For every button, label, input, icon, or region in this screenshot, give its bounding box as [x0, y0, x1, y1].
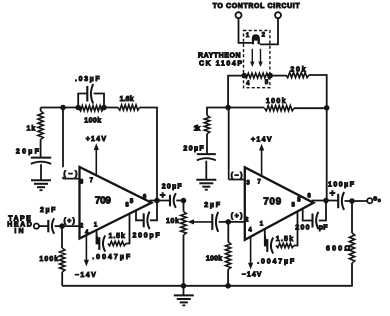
- potentiometer 10k: [181, 201, 187, 286]
- svg-text:(+): (+): [64, 218, 75, 225]
- wire pin 5 stub to 200pF stage 2: [303, 208, 313, 220]
- pin 8 number stage 1: [125, 202, 129, 208]
- label 20uF output: [162, 183, 183, 190]
- wire feedback bus left segment: [41, 107, 79, 109]
- label RAYTHEON: [198, 53, 241, 60]
- resistor 1k stage 1: [38, 111, 43, 140]
- svg-text:−14V: −14V: [242, 272, 262, 279]
- wire 1.6k to stage 1 output node: [140, 108, 157, 201]
- wire right terminal to lamp pin 2: [260, 18, 278, 44]
- svg-text:20µF: 20µF: [16, 148, 40, 155]
- svg-text:1.5k: 1.5k: [276, 236, 293, 243]
- wire node B to 1k stage 2: [207, 108, 228, 116]
- resistor 20k: [286, 72, 309, 77]
- svg-text:20µF: 20µF: [162, 183, 183, 190]
- svg-text:10k: 10k: [166, 218, 179, 225]
- wire input node stage 2 to 100k: [227, 222, 229, 242]
- svg-text:+14V: +14V: [251, 136, 272, 143]
- ground stage 2 bypass: [196, 180, 216, 190]
- svg-text:6: 6: [307, 193, 311, 199]
- terminal to control circuit left: [236, 12, 242, 18]
- svg-text:100k: 100k: [266, 98, 286, 105]
- wire pin 5 stub to 200pF stage 1: [136, 210, 144, 221]
- wire pin 1 stub stage 2: [265, 229, 268, 245]
- wire combo to 1.6k: [104, 107, 118, 109]
- svg-text:+: +: [160, 190, 166, 201]
- label 1k stage 1: [27, 125, 36, 132]
- label 1k stage 2: [194, 125, 201, 132]
- svg-text:200pF: 200pF: [133, 233, 161, 240]
- junction stage 2 output node: [324, 198, 329, 203]
- junction bottom rail at 100k stage 2: [226, 284, 231, 289]
- label pF of 200pF stage 2: [319, 224, 328, 231]
- ground center bottom: [174, 295, 194, 305]
- svg-text:8: 8: [125, 202, 129, 208]
- pin 7 number stage 2: [257, 179, 261, 185]
- wire right rail: [326, 105, 328, 201]
- junction photocell left: [242, 73, 247, 78]
- label (-) stage 2: [230, 169, 245, 180]
- svg-text:2: 2: [80, 223, 84, 229]
- resistor 1k stage 2: [204, 115, 209, 134]
- svg-text:1.6k: 1.6k: [120, 96, 134, 103]
- wire pin 1 stub stage 1: [97, 230, 100, 244]
- capacitor .03uF branch wires: [78, 94, 104, 108]
- junction bottom rail at pot: [181, 284, 186, 289]
- svg-text:5: 5: [297, 198, 301, 204]
- svg-text:1: 1: [246, 33, 250, 39]
- svg-text:5: 5: [130, 199, 134, 205]
- label .03uF: [75, 76, 100, 83]
- svg-text:2µF: 2µF: [40, 207, 56, 214]
- svg-text:pF: pF: [319, 224, 328, 231]
- wire photocell pin 5 to resistor 20k: [270, 75, 286, 77]
- label 709 stage 2: [263, 196, 281, 207]
- label 10k: [166, 218, 179, 225]
- label CK 1104P: [199, 60, 242, 67]
- pin 7 number stage 1: [90, 178, 94, 184]
- wire left terminal to lamp pin 1: [239, 18, 252, 43]
- lamp element of U1: [252, 34, 260, 44]
- svg-text:20k: 20k: [290, 66, 305, 73]
- supply +14V stage 1: [86, 136, 107, 176]
- svg-text:1k: 1k: [194, 125, 201, 132]
- label 20uF bypass stage 1: [16, 148, 40, 155]
- capacitor 100uF output: [338, 192, 344, 210]
- label + polarity 100uF: [330, 188, 336, 199]
- pin 3 number stage 2: [246, 181, 250, 187]
- svg-text:CK 1104P: CK 1104P: [199, 60, 242, 67]
- svg-text:.0047µF: .0047µF: [257, 259, 295, 266]
- svg-text:RAYTHEON: RAYTHEON: [198, 53, 241, 60]
- svg-text:2: 2: [245, 218, 249, 224]
- wire 100uF to output terminal: [345, 200, 368, 202]
- pin 4 number stage 1: [85, 230, 89, 236]
- svg-text:709: 709: [95, 195, 111, 206]
- junction input node stage 2: [226, 220, 231, 225]
- wire bus corner to 1k: [40, 108, 42, 112]
- pin 4 number: [246, 81, 250, 87]
- svg-text:o: o: [378, 198, 381, 204]
- wire 200pF to output node stage 2: [319, 201, 326, 221]
- svg-text:7: 7: [90, 178, 94, 184]
- junction feedback combo left: [76, 105, 81, 110]
- label 1.5k stage 1: [109, 233, 125, 240]
- junction right rail at feedback: [324, 106, 329, 111]
- svg-text:4: 4: [248, 227, 252, 233]
- wire rail to center ground: [183, 286, 185, 295]
- pin 1 number stage 2: [260, 221, 264, 227]
- pin 5 number stage 2: [297, 198, 301, 204]
- pin 2 number stage 2: [245, 218, 249, 224]
- label + polarity 20uF output: [160, 190, 166, 201]
- pin 6 number stage 1: [143, 194, 147, 200]
- svg-text:1: 1: [94, 223, 98, 229]
- pin 2 number stage 1: [80, 223, 84, 229]
- svg-text:3: 3: [246, 181, 250, 187]
- label TO CONTROL CIRCUIT: [213, 3, 301, 10]
- label 100k input stage 2: [206, 255, 222, 262]
- svg-text:IN: IN: [14, 228, 23, 235]
- wire 100k to bottom rail: [61, 272, 63, 286]
- pin 5 number: [265, 80, 269, 86]
- label (+) stage 1: [64, 218, 75, 225]
- label eo: [373, 196, 381, 205]
- capacitor 2uF input stage 1: [48, 218, 54, 234]
- label 600 ohm: [326, 246, 350, 253]
- svg-text:200: 200: [295, 224, 309, 231]
- label 100k feedback stage 1: [84, 118, 101, 125]
- label 2uF stage 1: [40, 207, 56, 214]
- svg-text:8: 8: [292, 203, 296, 209]
- svg-text:+14V: +14V: [86, 136, 107, 143]
- wire photocell pin 4 to node B: [228, 76, 244, 108]
- label (+) stage 2: [231, 213, 243, 220]
- svg-text:1: 1: [260, 221, 264, 227]
- label 100k feedback stage 2: [266, 98, 286, 105]
- label 20uF bypass stage 2: [183, 146, 204, 153]
- wire 20uF to ground: [40, 164, 42, 180]
- resistor 600 ohm: [349, 233, 354, 263]
- wire 2uF to pin 2 stage 2: [219, 221, 245, 223]
- svg-text:600Ω: 600Ω: [326, 246, 350, 253]
- wire 200pF to output node stage 1: [150, 201, 157, 221]
- svg-text:1k: 1k: [27, 125, 36, 132]
- capacitor 200pF stage 2: [313, 212, 319, 229]
- light arrow left: [250, 49, 254, 67]
- wire 2uF to pin 2 stage 1: [55, 225, 80, 227]
- wire node B to 100k feedback: [228, 107, 264, 109]
- svg-text:5: 5: [265, 80, 269, 86]
- wire input node to 100k: [61, 226, 63, 248]
- label 709 stage 1: [95, 195, 111, 206]
- label 100k input stage 1: [39, 256, 58, 263]
- wire 1.5k to pin 8 stage 2: [294, 211, 298, 245]
- terminal tape head input: [34, 224, 39, 229]
- svg-text:.0047µF: .0047µF: [92, 254, 131, 261]
- svg-text:−14V: −14V: [75, 272, 96, 279]
- wire 20uF to pot: [176, 200, 183, 202]
- svg-text:(−): (−): [64, 171, 78, 178]
- pin 1 number stage 1: [94, 223, 98, 229]
- wire stage 2 output: [312, 200, 339, 202]
- svg-text:709: 709: [263, 196, 281, 207]
- wire node A to pin 3: [63, 108, 79, 179]
- capacitor 200pF stage 1: [144, 212, 150, 230]
- label 1.6k: [120, 96, 134, 103]
- light arrow right: [258, 49, 262, 67]
- resistor 100k input stage 1: [60, 248, 65, 272]
- label TAPE HEAD IN: [7, 216, 32, 235]
- svg-text:4: 4: [246, 81, 250, 87]
- label 100uF: [328, 181, 355, 188]
- pin 8 number stage 2: [292, 203, 296, 209]
- svg-text:.03µF: .03µF: [75, 76, 100, 83]
- pin 3 number stage 1: [80, 179, 84, 185]
- junction node A to inverting input stage 1: [61, 105, 66, 110]
- junction photocell right: [268, 73, 273, 78]
- svg-text:100k: 100k: [39, 256, 58, 263]
- wire 600 ohm to bottom rail: [62, 263, 352, 286]
- svg-text:1.5k: 1.5k: [109, 233, 125, 240]
- capacitor 2uF coupling stage 2: [212, 212, 218, 232]
- wire output node to 600 ohm: [351, 201, 353, 233]
- wire 1k to 20uF stage 2: [206, 134, 208, 154]
- svg-text:TO CONTROL CIRCUIT: TO CONTROL CIRCUIT: [213, 3, 301, 10]
- junction 600 ohm node: [350, 199, 355, 204]
- label (-) stage 1: [62, 167, 78, 178]
- label 2uF stage 2: [204, 202, 221, 209]
- wire 20k to right rail: [309, 75, 327, 105]
- label .0047uF stage 1: [92, 254, 131, 261]
- pin 6 number stage 2: [307, 193, 311, 199]
- svg-text:(−): (−): [231, 173, 243, 180]
- svg-text:100k: 100k: [206, 255, 222, 262]
- capacitor 20uF coupling stage 1 output: [170, 193, 176, 208]
- resistor 1.5k stage 1: [108, 241, 126, 245]
- pot wiper arrow: [188, 219, 213, 224]
- wire node B to pin 3 stage 2: [229, 108, 245, 180]
- resistor 100k input stage 2: [225, 242, 230, 270]
- wire 100k stage 2 to bottom rail: [227, 270, 229, 286]
- photocell element of U1: [245, 73, 271, 78]
- ground stage 1 bypass: [31, 180, 51, 190]
- label 200 of 200pF stage 2: [295, 224, 309, 231]
- pin 4 number stage 2: [248, 227, 252, 233]
- wire stage 1 output: [150, 200, 171, 202]
- resistor 100k feedback stage 2: [265, 106, 295, 111]
- terminal output eo: [367, 198, 372, 203]
- svg-text:(+): (+): [231, 213, 243, 220]
- capacitor .0047uF stage 2: [267, 238, 273, 254]
- op-amp 709 stage 2: [245, 167, 314, 240]
- label 20k: [290, 66, 305, 73]
- wire 1k to 20uF: [40, 140, 42, 158]
- photocoupler U1 Raytheon CK1104P dashed enclosure: [244, 31, 270, 88]
- label 1.5k stage 2: [276, 236, 293, 243]
- junction feedback combo right: [102, 105, 107, 110]
- label 200pF stage 1: [133, 233, 161, 240]
- junction stage 1 output node: [155, 198, 160, 203]
- capacitor 20uF bypass stage 1: [31, 158, 51, 164]
- svg-text:100k: 100k: [84, 118, 101, 125]
- label .0047uF stage 2: [257, 259, 295, 266]
- capacitor .0047uF stage 1: [99, 236, 105, 252]
- resistor 1.5k stage 2: [276, 243, 294, 247]
- svg-text:2µF: 2µF: [204, 202, 221, 209]
- pin 2 number: [262, 33, 266, 39]
- pin 5 number stage 1: [130, 199, 134, 205]
- wire input terminal to 2uF: [39, 225, 48, 227]
- capacitor .03uF: [87, 84, 93, 104]
- resistor 100k feedback stage 1: [79, 106, 104, 111]
- supply -14V stage 1: [75, 235, 96, 279]
- wire 100k feedback to right rail: [294, 107, 327, 109]
- resistor 1.6k: [118, 105, 140, 110]
- wire 1.5k to pin 8 stage 1: [126, 213, 130, 244]
- junction input node stage 1: [60, 224, 65, 229]
- supply +14V stage 2: [251, 136, 272, 176]
- svg-text:3: 3: [80, 179, 84, 185]
- svg-text:20µF: 20µF: [183, 146, 204, 153]
- terminal to control circuit right: [275, 12, 281, 18]
- svg-text:e: e: [373, 196, 377, 203]
- svg-text:+: +: [330, 188, 336, 199]
- pin 1 number: [246, 33, 250, 39]
- junction node B: [226, 105, 231, 110]
- svg-text:2: 2: [262, 33, 266, 39]
- op-amp 709 stage 1: [80, 167, 152, 239]
- supply -14V stage 2: [242, 237, 262, 279]
- capacitor 20uF bypass stage 2: [197, 154, 216, 160]
- junction pot top node: [181, 198, 186, 203]
- svg-text:7: 7: [257, 179, 261, 185]
- wire 20uF to ground stage 2: [205, 161, 207, 180]
